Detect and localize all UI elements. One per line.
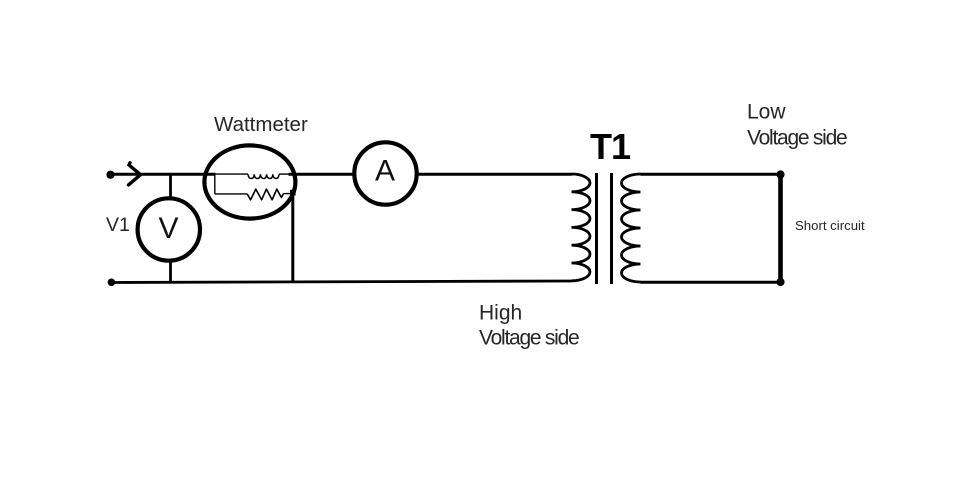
wattmeter W1 (ellipse body) [204,145,295,218]
wire (thin lead to voltage coil) [215,193,247,195]
svg-text:Wattmeter: Wattmeter [214,113,308,136]
wire (top wire from ammeter to transformer primary) [417,173,572,176]
wire (thin conductor from current coil to right side of wattmeter) [279,173,289,175]
wire (thin lead from voltage coil to junction) [284,193,292,195]
svg-text:V: V [158,212,178,245]
svg-text:Voltage side: Voltage side [479,327,579,350]
resistor (wattmeter current coil squiggle) [248,174,279,178]
node (short-circuit bottom terminal dot) [776,278,784,286]
svg-text:T1: T1 [590,126,631,167]
wire (bottom wire from input terminal to transformer primary) [111,281,572,283]
svg-text:Low: Low [747,101,786,124]
node (short-circuit top terminal dot) [776,170,784,178]
wire (vertical tap to voltmeter) [169,174,172,198]
wire (voltmeter bottom to bottom wire) [169,262,172,283]
svg-text:High: High [479,302,522,325]
node A (left input top terminal dot) [106,171,114,179]
svg-text:Voltage side: Voltage side [747,127,847,150]
wire (top wire from wattmeter to ammeter) [289,173,355,176]
ammeter A1 (circle) [354,142,416,204]
wire (top wire from input terminal to wattmeter) [111,173,216,176]
node (junction of voltage coil and drop wire) [290,190,296,196]
svg-text:A: A [375,155,395,188]
wire (secondary bottom wire to short-circuit bar) [641,281,781,284]
wire (secondary top wire to short-circuit bar) [641,173,781,176]
voltmeter V1 (circle) [138,198,200,260]
transformer T1 primary winding [572,174,591,281]
short-circuit bar (vertical link on low voltage side) [778,174,783,283]
wire (thin vertical branch to voltage coil) [214,174,216,194]
transformer T1 secondary winding [622,174,641,282]
transformer T1 core line left [595,173,598,284]
arrow (current direction on top wire) [129,163,141,185]
wire (thin current-coil conductor inside wattmeter) [215,173,249,175]
transformer T1 core line right [610,173,613,284]
wire (drop from wattmeter junction to bottom wire) [291,192,294,283]
svg-text:V1: V1 [106,214,130,236]
node (left input bottom terminal dot) [108,279,116,287]
svg-text:Short circuit: Short circuit [795,218,865,233]
resistor (wattmeter voltage coil zigzag) [247,189,283,200]
